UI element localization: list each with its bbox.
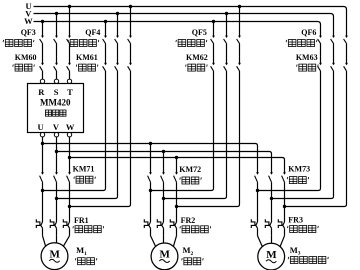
svg-text:U: U	[38, 122, 44, 132]
svg-text:FR3: FR3	[288, 216, 303, 225]
svg-text:QF5: QF5	[192, 28, 207, 37]
svg-text:KM71: KM71	[73, 164, 95, 173]
svg-text:KM61: KM61	[76, 53, 98, 62]
svg-text:M: M	[160, 249, 171, 261]
svg-text:QF6: QF6	[301, 28, 316, 37]
svg-text:QF3: QF3	[21, 28, 36, 37]
svg-text:T: T	[67, 87, 73, 97]
svg-text:QF4: QF4	[85, 28, 100, 37]
svg-text:KM60: KM60	[15, 53, 37, 62]
svg-text:V: V	[53, 122, 60, 132]
svg-text:FR2: FR2	[181, 216, 196, 225]
svg-text:W: W	[24, 16, 33, 26]
svg-text:MM420: MM420	[40, 98, 71, 108]
svg-text:M: M	[50, 249, 61, 261]
svg-text:M: M	[266, 249, 277, 261]
svg-text:FR1: FR1	[74, 216, 89, 225]
svg-text:KM63: KM63	[296, 53, 318, 62]
svg-text:KM62: KM62	[186, 53, 208, 62]
svg-text:R: R	[38, 87, 45, 97]
svg-text:W: W	[66, 122, 75, 132]
svg-text:KM73: KM73	[288, 165, 310, 174]
svg-text:KM72: KM72	[179, 165, 201, 174]
svg-text:S: S	[54, 87, 59, 97]
